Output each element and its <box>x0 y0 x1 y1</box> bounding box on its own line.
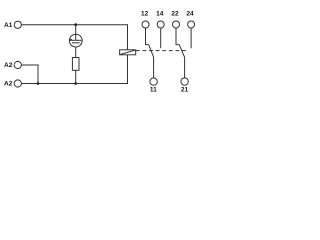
mechanical linkage dashed <box>136 50 186 52</box>
svg-text:12: 12 <box>141 10 149 17</box>
wire NC contact 22 <box>176 28 179 45</box>
contact arm group 2 <box>179 45 184 78</box>
svg-text:A2: A2 <box>4 62 13 69</box>
terminal 21 <box>181 78 189 94</box>
svg-text:A1: A1 <box>4 22 13 29</box>
wire NC contact 12 <box>146 28 149 45</box>
svg-text:A2: A2 <box>4 81 13 88</box>
svg-text:11: 11 <box>150 87 157 94</box>
terminal 24 <box>186 10 194 28</box>
terminal 14 <box>156 10 164 28</box>
terminal 12 <box>141 10 149 28</box>
terminal A1 <box>4 21 21 29</box>
wire bottom rail <box>22 55 128 84</box>
indicator LED D1 <box>69 34 82 47</box>
contact arm group 1 <box>149 45 154 78</box>
svg-text:21: 21 <box>181 87 189 94</box>
wire A1 to coil corner <box>22 25 128 50</box>
svg-text:22: 22 <box>171 10 179 17</box>
svg-text:14: 14 <box>156 10 164 17</box>
junction bottom of resistor branch <box>74 82 77 85</box>
junction A2 tee <box>37 82 40 85</box>
terminal A2 lower <box>4 80 21 88</box>
wire indicator to resistor <box>75 47 77 58</box>
relay coil K1 <box>120 50 136 55</box>
wire junction to indicator <box>75 25 77 35</box>
terminal A2 upper <box>4 61 21 69</box>
junction top of LED branch <box>74 23 77 26</box>
terminal 11 <box>150 78 157 94</box>
wire NO contact 24 <box>190 28 192 48</box>
terminal 22 <box>171 10 179 28</box>
wire A2 upper to rail <box>22 65 39 84</box>
wire resistor to bottom rail <box>75 70 77 83</box>
svg-text:24: 24 <box>186 10 194 17</box>
resistor R1 <box>72 58 79 71</box>
wire NO contact 14 <box>160 28 162 48</box>
